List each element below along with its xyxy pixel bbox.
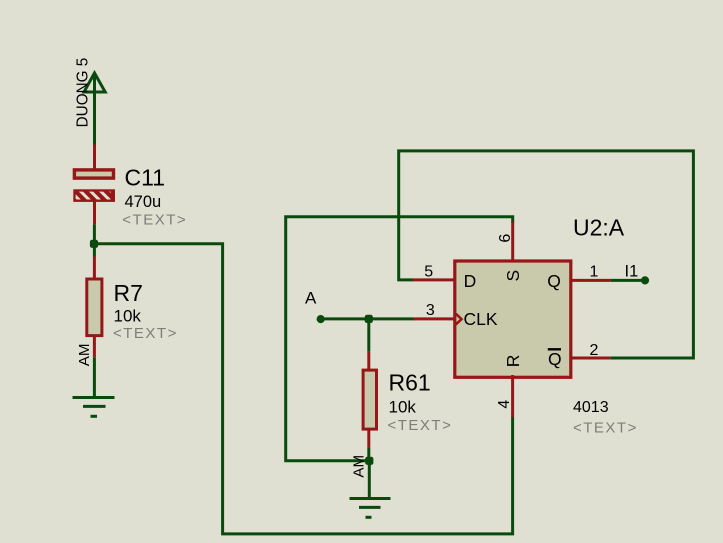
svg-text:4013: 4013 [573,399,609,416]
R61 top pin stub (red) [367,352,370,370]
svg-text:<TEXT>: <TEXT> [573,419,638,436]
svg-text:AM: AM [350,455,367,478]
wire C11 to junction (green) [93,224,96,256]
S pin stub (red) [511,222,514,261]
C11 bottom pin stub (red) [93,202,96,225]
C11 top pin stub (red) [93,145,96,170]
svg-text:D: D [464,271,477,291]
svg-text:5: 5 [424,263,433,280]
svg-text:I1: I1 [625,262,639,280]
wire Q-bar feedback: right, up, across top, down and into D pin (green net) [399,151,694,358]
svg-text:A: A [305,289,317,308]
ground under R61 [350,499,391,518]
svg-text:4: 4 [496,400,513,409]
svg-text:C11: C11 [125,165,166,191]
pin label Q-bar [548,349,562,369]
svg-text:S: S [503,270,523,282]
junction at R61 bottom [365,457,373,465]
svg-text:DUONG 5: DUONG 5 [75,58,92,128]
svg-text:2: 2 [590,342,599,359]
wire junction to R61 (green) [367,319,370,352]
svg-text:Q: Q [548,349,562,369]
node A terminal dot [317,315,325,323]
D pin stub (red) [412,278,457,281]
svg-text:<TEXT>: <TEXT> [122,211,187,228]
svg-text:10k: 10k [389,397,417,416]
svg-text:1: 1 [590,264,599,281]
svg-text:R: R [503,355,523,368]
wire R7 to ground (green) [93,357,96,397]
wire junction to ground (green) [368,461,371,499]
capacitor C11 bottom plate (hatched) [67,188,123,204]
wire A to CLK (green) [321,317,414,320]
svg-text:6: 6 [497,234,514,243]
IC U2:A body (D-type flip-flop 4013) [455,261,571,377]
svg-text:CLK: CLK [464,309,498,329]
R7 top pin stub (red) [93,257,96,279]
Q-bar pin stub (red) [570,357,610,360]
wire R61 to junction (green) [367,448,370,462]
clock input triangle [456,314,462,325]
svg-text:10k: 10k [114,307,142,326]
resistor R61 [363,370,376,429]
R pin stub (red) [511,375,514,417]
resistor R7 [87,279,102,336]
svg-text:470u: 470u [125,193,162,211]
ground under R7 [73,398,115,417]
R61 bottom pin stub (red) [367,430,370,448]
wire junction to riser, down, along bottom and up to R pin (green net) [94,244,513,534]
svg-text:U2:A: U2:A [573,215,625,241]
svg-text:R7: R7 [114,280,143,306]
svg-text:Q: Q [547,271,561,291]
junction at R61 top [365,315,373,323]
svg-text:<TEXT>: <TEXT> [388,417,453,434]
wire Q to terminal I1 (green) [610,279,641,282]
svg-text:3: 3 [426,302,435,319]
CLK pin stub (red) [414,317,457,320]
svg-text:R61: R61 [389,370,431,396]
power symbol DUONG 5 arrow [84,73,105,92]
svg-text:<TEXT>: <TEXT> [113,325,178,342]
R7 bottom pin stub (red) [93,337,96,358]
junction node at C11/R7 [90,240,98,248]
terminal I1 dot [641,276,649,284]
svg-text:AM: AM [76,343,93,366]
wire power to C11 (green) [93,73,96,146]
Q pin stub (red) [570,279,610,282]
wire S-net: from S pin up, across top, down left side and to R61 bottom junction (green net) [286,217,513,461]
capacitor C11 top plate [74,170,113,178]
